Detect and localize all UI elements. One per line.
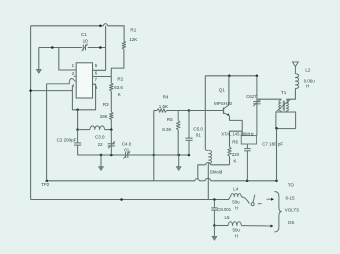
op-amp U1 body (76, 63, 92, 98)
inductor tank coil (209, 150, 212, 163)
label R5 (167, 117, 173, 122)
svg-text:C2 200pF: C2 200pF (57, 138, 77, 143)
svg-text:R4: R4 (163, 94, 169, 99)
svg-text:L2: L2 (305, 68, 311, 73)
svg-text:28K: 28K (100, 114, 108, 119)
svg-text:T1: T1 (281, 90, 287, 95)
label Shield (210, 170, 223, 175)
svg-text:R5: R5 (167, 117, 173, 122)
wire shield box ground lead (276, 129, 278, 181)
wire coil to B- rail (207, 163, 209, 199)
node dot on C1 wire (51, 46, 54, 49)
value 22 (98, 142, 104, 147)
wire pin4-pin8 strap (72, 84, 95, 110)
capacitor C1 (82, 44, 88, 52)
capacitor C7 (244, 144, 250, 181)
wire supply rail to pin 4 (31, 90, 73, 92)
node C7 bottom dot (246, 180, 249, 183)
svg-text:22: 22 (98, 142, 104, 147)
svg-text:R3: R3 (103, 102, 109, 107)
wire TP2 bus right (211, 180, 277, 182)
svg-text:L4: L4 (233, 187, 239, 192)
wire T1 secondary into shield box (285, 111, 287, 112)
wire crossover hop coil (205, 178, 210, 181)
label R3 (103, 102, 109, 107)
wire TP2 bus mid (199, 180, 205, 182)
wire corner drop (153, 111, 155, 156)
wire C8 node to L5 (214, 225, 228, 227)
label L4 (233, 187, 239, 192)
capacitor C6 (253, 76, 260, 136)
wire top feed to R1 (108, 26, 125, 41)
svg-text:01: 01 (196, 132, 202, 137)
svg-text:K: K (234, 159, 237, 164)
wire crossover hop shield (195, 179, 199, 181)
svg-text:H: H (306, 84, 309, 89)
shield top lead (211, 164, 230, 166)
value 50u (232, 199, 240, 204)
capacitor C3 (108, 130, 115, 155)
wire tank feed (204, 76, 206, 149)
wire left supply rail (30, 26, 32, 200)
ground (176, 155, 181, 171)
node C2 top dot (76, 128, 79, 131)
wire rail drop (153, 155, 155, 181)
value 0.06u (304, 79, 316, 84)
svg-text:8.3K: 8.3K (162, 127, 171, 132)
wire T1 primary into shield box (280, 111, 282, 112)
T1 shield box (276, 112, 296, 129)
wire base line left corner (154, 110, 157, 112)
wire C1 right (88, 47, 106, 49)
capacitor C2 (74, 130, 81, 146)
label 6-15 (286, 195, 296, 200)
value 12K (129, 37, 138, 42)
node Q1 collector dot (228, 75, 231, 78)
node rail junction dot (29, 89, 32, 92)
value K (118, 92, 121, 97)
svg-text:XTAL 145.09MHz: XTAL 145.09MHz (221, 131, 254, 136)
svg-text:R1: R1 (130, 28, 136, 33)
inductor L4 (229, 194, 250, 204)
resistor R4 (157, 109, 167, 113)
value 1.6K (159, 104, 168, 109)
wire TP2 bus (47, 180, 195, 182)
crystal XTAL box (241, 136, 256, 144)
node gnd rail dot A (100, 154, 103, 157)
pin 7 label (95, 77, 98, 82)
svg-text:K: K (118, 92, 121, 97)
wire tank jog (205, 149, 208, 151)
label XTAL 145.09MHz (221, 131, 254, 136)
svg-text:TP2: TP2 (41, 182, 50, 187)
label DS (288, 220, 294, 225)
value 50u (233, 228, 241, 233)
pin 4 label (72, 83, 75, 88)
node TP2 terminal dot (46, 180, 49, 183)
label VOLTS (285, 208, 299, 213)
pin 8 label (95, 85, 98, 90)
resistor R1 (122, 41, 126, 49)
svg-text:50u: 50u (233, 228, 241, 233)
value K (234, 159, 237, 164)
inductor L2 (295, 74, 298, 89)
label R4 (163, 94, 169, 99)
value 01 (196, 132, 202, 137)
value H (306, 84, 309, 89)
switch S1 (251, 195, 261, 206)
label TP2 (41, 182, 50, 187)
wire Q1 collector (228, 76, 230, 105)
wire T1 secondary to L2 (286, 89, 295, 100)
pin 1 label (72, 63, 75, 68)
resistor R5 (176, 111, 180, 130)
svg-text:DS: DS (288, 220, 294, 225)
label MPSH10 (214, 101, 233, 106)
wire crossover hop on top feed (103, 24, 107, 26)
wire TP2 riser to pin3 (46, 84, 48, 181)
node C6 top dot (256, 75, 259, 78)
svg-text:Q1: Q1 (219, 88, 226, 93)
svg-text:Shield: Shield (210, 170, 223, 175)
value H (235, 205, 238, 210)
brace (274, 192, 281, 232)
svg-text:VOLTS: VOLTS (285, 208, 299, 213)
label C7 180 pF (262, 142, 283, 147)
wire IC pin 6 riser (93, 26, 106, 71)
node strap junction dot (76, 109, 79, 112)
pin 5 label (95, 63, 98, 68)
ground (98, 155, 103, 171)
svg-text:R6: R6 (232, 139, 238, 144)
svg-text:TO: TO (288, 183, 295, 188)
shield left (198, 165, 206, 180)
svg-text:C7 180 pF: C7 180 pF (262, 142, 283, 147)
ground (36, 48, 41, 74)
resistor R3 (110, 112, 114, 120)
label L2 (305, 68, 311, 73)
wire oscillator top rail (205, 75, 257, 77)
value 220 (232, 152, 240, 157)
value 10 (83, 39, 89, 44)
wire R3 to L1 node (110, 120, 112, 130)
wire R6 bottom to shield (229, 156, 231, 165)
svg-text:10: 10 (83, 39, 89, 44)
wire ground rail left (101, 154, 126, 156)
pin 3 curl wire (47, 78, 77, 83)
label C5.0 (193, 126, 203, 131)
label C1 (81, 32, 87, 37)
svg-text:MPSH10: MPSH10 (214, 101, 233, 106)
pin 6 label (95, 70, 98, 75)
svg-text:12K: 12K (129, 37, 138, 42)
label TO (288, 183, 295, 188)
resistor R6 (228, 147, 232, 156)
node C8 top dot (213, 198, 216, 201)
label T1 (281, 90, 287, 95)
svg-text:C1: C1 (81, 32, 87, 37)
node C8 bottom dot (213, 224, 216, 227)
node gnd rail dot E (188, 154, 191, 157)
node L1/R3 junction dot (110, 128, 113, 131)
wire C2 node to L1 (78, 129, 90, 131)
wire emitter branch to R6 (230, 131, 243, 147)
node dot near pin6 riser (99, 46, 102, 49)
label C627 (246, 94, 257, 99)
wire C6 to T1 primary (257, 99, 281, 100)
svg-text:R2: R2 (117, 77, 123, 82)
wire R5 bottom (177, 130, 179, 155)
value 01 (124, 148, 130, 153)
label L5 (225, 215, 231, 220)
node junction dot on top feed (99, 25, 102, 28)
wire ground rail right (154, 154, 189, 156)
label C4.0 (122, 141, 132, 146)
node gnd rail dot C (153, 154, 156, 157)
arrow to supply positive (267, 198, 274, 201)
capacitor C8 (211, 200, 217, 226)
antenna (292, 62, 298, 74)
node gnd rail dot B (110, 154, 113, 157)
label C8.001 (217, 207, 231, 212)
wire base line to Q1 (189, 110, 224, 112)
wire C1 left (39, 47, 82, 49)
arrow to supply negative (266, 225, 273, 228)
value 63.6 (114, 85, 123, 90)
inductor L1 (90, 126, 105, 130)
svg-text:C627: C627 (246, 94, 257, 99)
value 28K (100, 114, 108, 119)
svg-text:6-15: 6-15 (286, 195, 296, 200)
wire top-left feed (31, 25, 104, 27)
transistor Q1 (224, 105, 230, 116)
label R2 (117, 77, 123, 82)
wire Q1 emitter chain (230, 116, 243, 136)
node C5 top dot (188, 109, 191, 112)
svg-text:H: H (235, 234, 238, 239)
wire IC pin 7 to R2 (93, 76, 112, 78)
label R1 (130, 28, 136, 33)
wire strap to C2 node (77, 110, 79, 130)
svg-text:C3.0: C3.0 (95, 135, 105, 140)
wire C2 to ground rail (78, 145, 101, 155)
svg-text:C5.0: C5.0 (193, 126, 203, 131)
label C2 200pF (57, 138, 77, 143)
node bottom rail dot (120, 198, 123, 201)
transformer T1 (277, 99, 291, 111)
ground (212, 226, 217, 241)
shield hop (206, 162, 211, 164)
wire ground rail mid (128, 154, 154, 156)
capacitor C4 (123, 151, 130, 158)
value 8.3K (162, 127, 171, 132)
svg-text:01: 01 (124, 148, 130, 153)
svg-text:63.6: 63.6 (114, 85, 123, 90)
inductor L5 (228, 222, 241, 226)
pin 2 stub (74, 75, 76, 77)
capacitor C5 (185, 111, 192, 156)
wire R1 bottom to R2 top (111, 49, 124, 83)
wire bottom rail (31, 199, 229, 201)
wire R2 to R3 (110, 91, 112, 112)
value H (235, 234, 238, 239)
wire base line mid (167, 110, 189, 112)
wire to IC pin 1 (59, 48, 76, 71)
pin 2 label (72, 71, 75, 76)
svg-text:220: 220 (232, 152, 240, 157)
node T1 shield bottom dot (275, 180, 278, 183)
svg-text:1.6K: 1.6K (159, 104, 168, 109)
svg-text:H: H (235, 205, 238, 210)
label Q1 (219, 88, 226, 93)
label R6 (232, 139, 238, 144)
node shield box corner dot (275, 127, 278, 130)
wire L1 to R3 node (105, 129, 112, 131)
svg-text:C8.001: C8.001 (217, 207, 231, 212)
node gnd rail dot D (177, 154, 180, 157)
resistor R2 (110, 83, 114, 91)
svg-text:C4.0: C4.0 (122, 141, 132, 146)
label C3.0 (95, 135, 105, 140)
wire L5 to arrow (241, 225, 266, 227)
svg-text:L5: L5 (225, 215, 231, 220)
svg-text:50u: 50u (232, 199, 240, 204)
